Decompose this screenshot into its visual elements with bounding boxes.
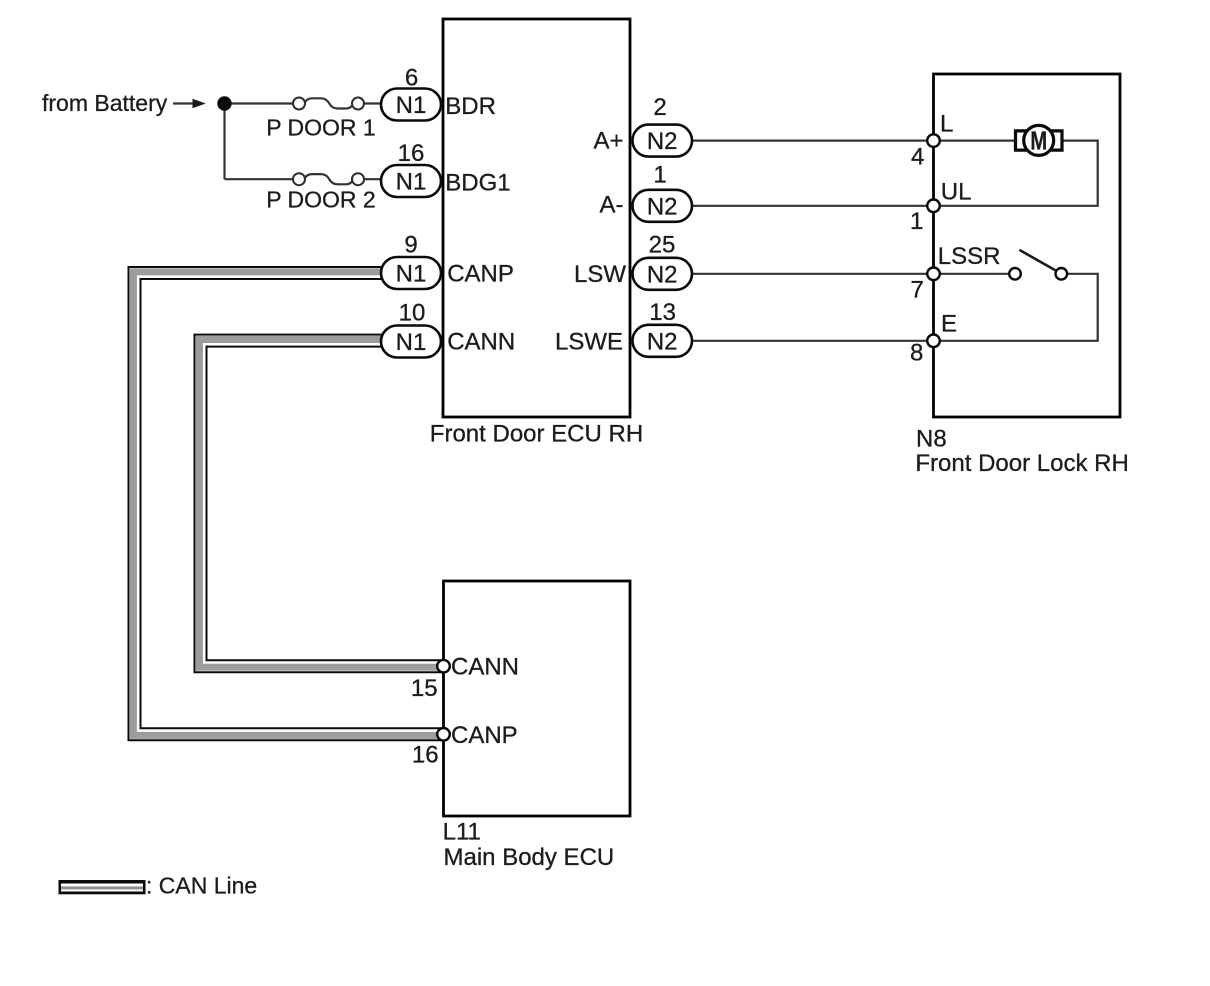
svg-text:M: M xyxy=(1030,126,1047,156)
svg-text:P DOOR 1: P DOOR 1 xyxy=(266,115,376,141)
svg-text:1: 1 xyxy=(910,208,923,235)
svg-text:L: L xyxy=(940,111,953,138)
svg-text:N2: N2 xyxy=(647,128,678,155)
svg-text:4: 4 xyxy=(911,144,924,171)
svg-text:N1: N1 xyxy=(396,261,427,288)
svg-text:6: 6 xyxy=(405,65,418,92)
svg-text:7: 7 xyxy=(910,276,923,303)
svg-text:A+: A+ xyxy=(593,127,623,154)
svg-text:: CAN Line: : CAN Line xyxy=(146,872,257,898)
svg-text:P DOOR 2: P DOOR 2 xyxy=(266,187,376,213)
svg-text:1: 1 xyxy=(653,162,666,189)
svg-text:N2: N2 xyxy=(647,328,678,355)
svg-text:BDG1: BDG1 xyxy=(445,169,510,196)
svg-text:CANP: CANP xyxy=(451,722,518,749)
svg-text:N1: N1 xyxy=(396,92,427,119)
svg-text:Main Body ECU: Main Body ECU xyxy=(444,844,615,871)
svg-text:15: 15 xyxy=(411,675,438,702)
svg-text:2: 2 xyxy=(653,94,666,121)
svg-text:N8: N8 xyxy=(916,426,947,453)
svg-text:16: 16 xyxy=(398,140,425,167)
svg-text:N1: N1 xyxy=(396,329,427,356)
svg-text:N2: N2 xyxy=(647,193,678,220)
svg-text:10: 10 xyxy=(399,300,426,327)
svg-text:LSW: LSW xyxy=(574,261,626,288)
svg-text:UL: UL xyxy=(941,179,972,206)
svg-text:from Battery: from Battery xyxy=(42,90,168,116)
svg-text:Front Door ECU RH: Front Door ECU RH xyxy=(430,421,643,448)
svg-text:9: 9 xyxy=(404,231,417,258)
svg-text:CANN: CANN xyxy=(447,329,515,356)
svg-text:16: 16 xyxy=(412,742,439,769)
svg-text:13: 13 xyxy=(649,299,676,326)
svg-text:N1: N1 xyxy=(396,169,427,196)
svg-text:25: 25 xyxy=(649,232,676,259)
svg-text:LSSR: LSSR xyxy=(938,243,1001,270)
svg-text:LSWE: LSWE xyxy=(555,329,623,356)
svg-text:L11: L11 xyxy=(443,818,481,845)
svg-text:E: E xyxy=(941,311,957,338)
svg-text:N2: N2 xyxy=(647,261,678,288)
svg-text:CANP: CANP xyxy=(447,260,514,287)
svg-text:BDR: BDR xyxy=(445,93,496,120)
svg-text:A-: A- xyxy=(600,192,624,219)
svg-text:8: 8 xyxy=(910,339,923,366)
svg-text:CANN: CANN xyxy=(451,654,519,681)
svg-text:Front Door Lock RH: Front Door Lock RH xyxy=(915,450,1128,477)
